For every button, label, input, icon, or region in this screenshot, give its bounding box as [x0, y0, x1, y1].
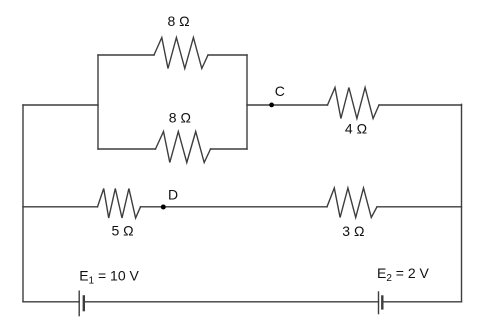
wire 5 ohm to 3 ohm through node D [141, 206, 328, 208]
wire right vertical [461, 104, 463, 301]
wire bottom left to battery E1 [23, 301, 79, 303]
battery E1 negative plate [83, 295, 85, 311]
wire bottom branch lead-out [211, 148, 248, 150]
resistor 8 ohm (top branch) [154, 38, 208, 69]
svg-text:E1 = 10 V: E1 = 10 V [79, 267, 139, 286]
wire battery E1 to battery E2 [84, 301, 379, 303]
wire top branch lead-out [208, 54, 247, 56]
wire battery E2 to right side [382, 301, 461, 303]
battery E2 positive plate [378, 291, 380, 314]
resistor 3 ohm [327, 188, 377, 218]
resistor 4 ohm [328, 88, 380, 119]
wire bottom branch lead-in [98, 148, 156, 150]
wire left horizontal to parallel box [23, 104, 98, 106]
wire 4 ohm to right side [379, 104, 462, 106]
svg-text:D: D [168, 187, 178, 203]
wire parallel-box left vertical [97, 55, 99, 149]
svg-text:3 Ω: 3 Ω [342, 223, 364, 239]
wire box to node C to 4 ohm [247, 104, 328, 106]
battery E1 positive plate [78, 291, 80, 317]
svg-text:E2 = 2 V: E2 = 2 V [377, 265, 430, 284]
battery E2 negative plate [381, 295, 383, 309]
wire parallel-box right vertical [246, 55, 248, 149]
node C junction dot [269, 103, 274, 108]
svg-text:4 Ω: 4 Ω [345, 121, 367, 137]
resistor 8 ohm (bottom branch) [156, 132, 211, 163]
svg-text:5 Ω: 5 Ω [112, 223, 134, 239]
wire 3 ohm to right side [377, 206, 462, 208]
svg-text:8 Ω: 8 Ω [168, 13, 190, 29]
svg-text:8 Ω: 8 Ω [169, 110, 191, 126]
wire middle row left [23, 206, 98, 208]
resistor 5 ohm [98, 189, 141, 219]
wire left vertical [22, 105, 24, 302]
wire top branch lead-in [98, 54, 154, 56]
node D junction dot [161, 205, 166, 210]
svg-text:C: C [275, 83, 285, 99]
